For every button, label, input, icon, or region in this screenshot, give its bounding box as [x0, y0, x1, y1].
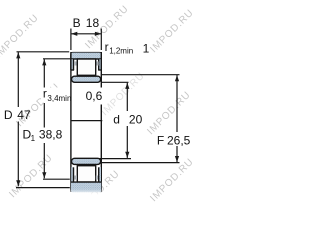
- arrow F top: [175, 75, 179, 81]
- svg-text:38,8: 38,8: [39, 128, 63, 142]
- outer ring top section band: [71, 53, 101, 70]
- svg-text:47: 47: [17, 108, 31, 122]
- svg-text:20: 20: [129, 112, 143, 126]
- dimension d extension top: [102, 81, 129, 83]
- outer ring top left flange: [73, 59, 75, 70]
- label r 3,4min: [41, 88, 70, 103]
- cage bar top right: [96, 61, 99, 65]
- arrow F bottom: [175, 156, 179, 162]
- roller bottom: [77, 166, 95, 182]
- dimension D extension bottom: [16, 187, 70, 189]
- svg-text:F: F: [157, 133, 164, 147]
- arrow D1 top: [42, 59, 46, 65]
- right face line: [100, 52, 102, 192]
- outer ring top left flange fill: [71, 59, 73, 69]
- outer ring bottom left flange fill: [71, 167, 73, 182]
- svg-text:0,6: 0,6: [86, 89, 103, 103]
- inner ring bottom section band: [72, 158, 101, 164]
- outer ring top underside raceway line: [71, 58, 101, 60]
- svg-text:IMPOD.RU: IMPOD.RU: [148, 156, 196, 204]
- dimension D1 extension top: [43, 58, 70, 60]
- arrow D bottom: [16, 180, 20, 186]
- svg-text:B: B: [73, 16, 81, 30]
- svg-text:1,2min: 1,2min: [109, 47, 133, 56]
- left face line: [70, 52, 72, 192]
- dimension D extension top: [17, 51, 70, 53]
- svg-text:d: d: [113, 112, 120, 126]
- svg-text:18: 18: [86, 16, 100, 30]
- bottom fade: [58, 189, 122, 195]
- cage bar bottom left: [74, 176, 77, 180]
- arrow B right: [95, 32, 101, 36]
- svg-text:3,4min: 3,4min: [47, 94, 71, 103]
- svg-text:IMPOD.RU: IMPOD.RU: [0, 12, 41, 60]
- outer ring top right flange fill: [99, 59, 101, 69]
- roller top: [77, 59, 95, 75]
- dimension d extension bottom: [100, 158, 132, 160]
- arrow B left: [71, 32, 77, 36]
- dimension d line: [126, 83, 128, 111]
- svg-text:IMPOD.RU: IMPOD.RU: [99, 70, 147, 118]
- cage bar top left: [74, 61, 77, 65]
- watermark tiles: [0, 3, 196, 216]
- svg-text:26,5: 26,5: [167, 133, 191, 147]
- dimension D1 extension bottom: [43, 178, 70, 180]
- axis centerline: [71, 120, 102, 122]
- arrow D top: [16, 52, 20, 58]
- dimension F line: [176, 75, 178, 132]
- label 0,6: [79, 88, 104, 105]
- dimension F extension bottom: [100, 162, 180, 164]
- cage bar bottom right: [96, 176, 99, 180]
- svg-text:IMPOD.RU: IMPOD.RU: [148, 7, 196, 55]
- outer ring bottom right flange line: [98, 167, 100, 182]
- inner ring top section band: [72, 76, 101, 82]
- arrow d bottom: [125, 152, 129, 158]
- outer ring bottom right flange fill: [99, 167, 101, 182]
- svg-text:IMPOD.RU: IMPOD.RU: [145, 89, 193, 137]
- arrow D1 bottom: [42, 172, 46, 178]
- svg-text:r: r: [105, 40, 109, 54]
- dimension F extension top: [102, 74, 180, 76]
- dimension B extension lines: [70, 29, 72, 51]
- svg-text:D: D: [4, 108, 13, 122]
- svg-text:r: r: [43, 87, 47, 101]
- outer ring bottom raceway line: [71, 181, 101, 183]
- svg-text:1: 1: [143, 41, 150, 55]
- outer ring bottom left flange line: [73, 167, 75, 182]
- outer ring bottom band: [71, 182, 101, 193]
- arrow d top: [125, 83, 129, 89]
- svg-text:1: 1: [31, 134, 36, 143]
- dimension B line: [71, 33, 101, 35]
- outer ring top right flange: [98, 59, 100, 70]
- dimension D1 line: [43, 59, 45, 87]
- svg-text:IMPOD.RU: IMPOD.RU: [7, 152, 55, 200]
- dimension D line: [17, 52, 19, 107]
